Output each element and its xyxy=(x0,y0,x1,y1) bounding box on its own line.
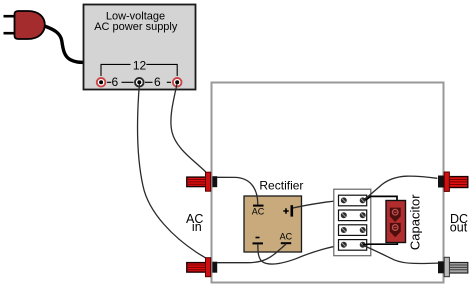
wire: J1 to rectifier AC terminal 1 xyxy=(217,177,258,204)
wire: strip row1 right to J3 (DC out +) xyxy=(363,176,437,200)
binding post J3 (DC out +, red) xyxy=(438,172,468,191)
svg-text:6: 6 xyxy=(111,75,118,89)
power cord xyxy=(45,26,85,62)
supply terminal center (black) xyxy=(135,78,144,87)
binding post J2 (AC in bottom, red) xyxy=(187,258,217,277)
wire: J2 to rectifier AC terminal 2 xyxy=(217,244,286,263)
terminal strip bar row2 xyxy=(339,210,367,221)
rectifier terminal − (bottom-left) xyxy=(253,238,264,244)
svg-text:in: in xyxy=(192,220,202,234)
capacitor polarity mark bottom xyxy=(390,223,401,237)
capacitor polarity mark top xyxy=(390,208,401,222)
svg-text:AC: AC xyxy=(252,207,265,217)
label AC in xyxy=(186,212,203,234)
svg-text:AC: AC xyxy=(280,231,293,241)
binding post J4 (DC out −, gray) xyxy=(438,257,468,276)
AC plug P1 xyxy=(4,11,45,39)
label 12 bracket xyxy=(101,59,177,76)
label 6 (left) xyxy=(107,75,134,89)
capacitor C1 lead bottom xyxy=(363,242,398,245)
binding post J1 (AC in top, red) xyxy=(187,172,217,191)
supply terminal left (red) xyxy=(97,78,106,87)
terminal strip bar row4 xyxy=(339,240,367,251)
terminal strip bar row3 xyxy=(339,225,367,236)
wire: supply right terminal to AC-in top jack xyxy=(171,84,206,172)
svg-text:Rectifier: Rectifier xyxy=(259,179,303,193)
screw row3 left xyxy=(341,227,347,233)
label 6 (right) xyxy=(145,75,171,89)
terminal strip TB1 outer xyxy=(334,189,371,256)
circuit board outline xyxy=(212,83,444,283)
svg-text:AC power supply: AC power supply xyxy=(94,21,178,33)
capacitor C1 lead top xyxy=(366,196,398,201)
screw row1 right xyxy=(360,197,366,203)
svg-text:12: 12 xyxy=(133,59,147,73)
svg-text:out: out xyxy=(450,220,468,234)
rectifier terminal + (top-right) xyxy=(283,205,292,216)
rectifier BR1 body xyxy=(244,196,302,252)
wire: supply center terminal to AC-in bottom jack xyxy=(138,84,207,258)
supply terminal right (red) xyxy=(173,78,182,87)
svg-text:Capacitor: Capacitor xyxy=(407,194,422,250)
wire: rectifier − to terminal strip row4 left xyxy=(258,244,344,264)
label DC out xyxy=(450,212,468,234)
wire: rectifier + to terminal strip row1 left xyxy=(293,200,344,208)
screw row3 right xyxy=(360,227,366,233)
screw row1 left xyxy=(341,197,347,203)
svg-text:6: 6 xyxy=(154,75,161,89)
screw row4 left xyxy=(341,242,347,248)
screw row2 right xyxy=(360,212,366,218)
power supply PS1 box xyxy=(84,5,196,90)
rectifier terminal AC2 (bottom-right) xyxy=(280,231,293,243)
capacitor C1 body xyxy=(386,201,406,243)
screw row2 left xyxy=(341,212,347,218)
rectifier terminal AC1 (top-left) xyxy=(252,206,265,217)
terminal strip bar row1 xyxy=(339,195,367,206)
screw row4 right xyxy=(360,242,366,248)
wire: strip row4 right to J4 (DC out −) xyxy=(363,246,438,264)
